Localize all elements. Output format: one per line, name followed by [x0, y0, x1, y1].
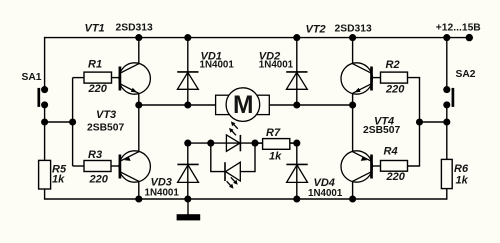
wire VD4 column — [296, 143, 298, 199]
wire motor node row — [139, 104, 353, 106]
diode VD2 1N4001 — [259, 51, 308, 90]
wire SA1 column top — [44, 37, 46, 90]
wire SA1 to base branch — [45, 121, 73, 123]
motor M — [216, 88, 270, 122]
diode VD1 1N4001 — [177, 51, 234, 90]
diode VD3 1N4001 — [145, 164, 199, 198]
node right branch junction — [416, 118, 423, 125]
node VD3 bottom / ground tap — [184, 195, 191, 202]
wire VD3 column — [187, 143, 189, 199]
wire R6 bottom — [446, 189, 448, 200]
svg-text:R4: R4 — [384, 146, 398, 158]
node VD1 bottom — [184, 101, 191, 108]
transistor VT3 2SB507 PNP — [87, 105, 150, 199]
svg-text:1N4001: 1N4001 — [259, 60, 294, 71]
wire left base branch vertical — [72, 78, 74, 166]
transistor VT2 2SD313 NPN — [306, 23, 373, 105]
svg-text:1N4001: 1N4001 — [145, 188, 180, 199]
LED HL2 (points left) — [225, 162, 240, 188]
wire R7 right lead — [290, 142, 297, 144]
svg-text:VT2: VT2 — [306, 24, 326, 36]
wire R5 bottom — [44, 189, 46, 200]
wire VD2 column — [296, 38, 298, 105]
svg-text:2SD313: 2SD313 — [335, 23, 372, 34]
resistor R3 220 — [84, 149, 111, 186]
wire SA2 column top — [446, 38, 448, 90]
node left branch junction — [69, 118, 76, 125]
svg-text:1N4001: 1N4001 — [200, 60, 235, 71]
node VT1 emitter motor row — [135, 101, 142, 108]
svg-text:220: 220 — [88, 83, 108, 95]
node VT3 collector on ground rail — [135, 195, 142, 202]
node VT2 collector on rail — [349, 34, 356, 41]
node VD4 bottom — [293, 195, 300, 202]
node VD1 top — [184, 34, 191, 41]
node VT4 collector on ground rail — [349, 195, 356, 202]
wire SA1 to R5 — [44, 105, 46, 160]
resistor R4 220 — [381, 146, 408, 184]
svg-text:+12...15B: +12...15B — [436, 23, 481, 34]
node VT2 emitter motor row — [349, 101, 356, 108]
svg-text:2SD313: 2SD313 — [116, 23, 153, 34]
node SA2-R6 junction — [443, 118, 450, 125]
wire SA2 to R6 — [446, 105, 448, 159]
wire top rail +V — [45, 37, 470, 39]
node VD4 top — [293, 140, 300, 147]
svg-text:1k: 1k — [52, 173, 65, 185]
wire R3 left lead — [73, 165, 84, 167]
LED HL1 (points right) — [226, 121, 240, 151]
wire VT2 base lead — [372, 77, 381, 79]
wire VD1 column — [187, 38, 189, 105]
svg-text:VT1: VT1 — [85, 23, 105, 35]
ground — [177, 199, 201, 220]
node VD3 top — [184, 140, 191, 147]
svg-text:M: M — [233, 92, 254, 119]
wire LED lower branch right — [240, 143, 255, 172]
svg-text:1N4001: 1N4001 — [308, 188, 343, 199]
switch SA1 — [22, 72, 49, 108]
wire R3 to VT3 base — [111, 165, 120, 167]
svg-text:SA1: SA1 — [22, 72, 42, 83]
svg-text:R7: R7 — [266, 127, 281, 139]
svg-text:2SB507: 2SB507 — [87, 122, 124, 133]
wire right branch to SA2 column — [420, 121, 447, 123]
svg-text:SA2: SA2 — [456, 69, 476, 80]
wire R7 left lead — [255, 142, 263, 144]
wire LED lower branch — [211, 143, 225, 172]
wire R1 to VT1 base — [112, 77, 120, 79]
resistor R6 1k — [441, 159, 469, 188]
svg-text:1k: 1k — [269, 151, 282, 163]
resistor R5 1k — [39, 160, 67, 189]
node VD2 bottom — [293, 101, 300, 108]
resistor R2 220 — [381, 59, 408, 96]
svg-text:220: 220 — [386, 171, 406, 183]
svg-text:VT3: VT3 — [96, 109, 116, 121]
diode VD4 1N4001 — [286, 164, 342, 199]
wire R4 to right branch — [408, 122, 420, 166]
terminal +12...15B — [436, 23, 481, 42]
node SA1-R5 junction — [41, 118, 48, 125]
node SA2 top on rail — [443, 34, 450, 41]
svg-text:R2: R2 — [386, 59, 400, 71]
resistor R7 1k — [263, 127, 290, 163]
wire bottom rail ground — [45, 198, 447, 200]
svg-text:2SB507: 2SB507 — [363, 125, 400, 136]
switch SA2 — [443, 69, 476, 108]
svg-text:R3: R3 — [88, 149, 102, 161]
transistor VT1 2SD313 NPN — [85, 23, 153, 106]
transistor VT4 2SB507 PNP — [341, 105, 400, 199]
wire R2 to right branch — [408, 78, 420, 122]
resistor R1 220 — [84, 59, 112, 95]
wire R1 left lead — [73, 77, 84, 79]
svg-text:R6: R6 — [454, 163, 469, 175]
svg-text:220: 220 — [385, 84, 405, 96]
node VT1 collector on rail — [135, 34, 142, 41]
node LED branch left — [207, 140, 214, 147]
wire LED row — [188, 142, 297, 144]
node VD2 top — [293, 34, 300, 41]
svg-text:220: 220 — [89, 174, 109, 186]
node LED branch right — [251, 140, 258, 147]
svg-text:1k: 1k — [456, 175, 469, 187]
wire VT4 base lead — [372, 165, 381, 167]
svg-text:R1: R1 — [88, 59, 102, 71]
